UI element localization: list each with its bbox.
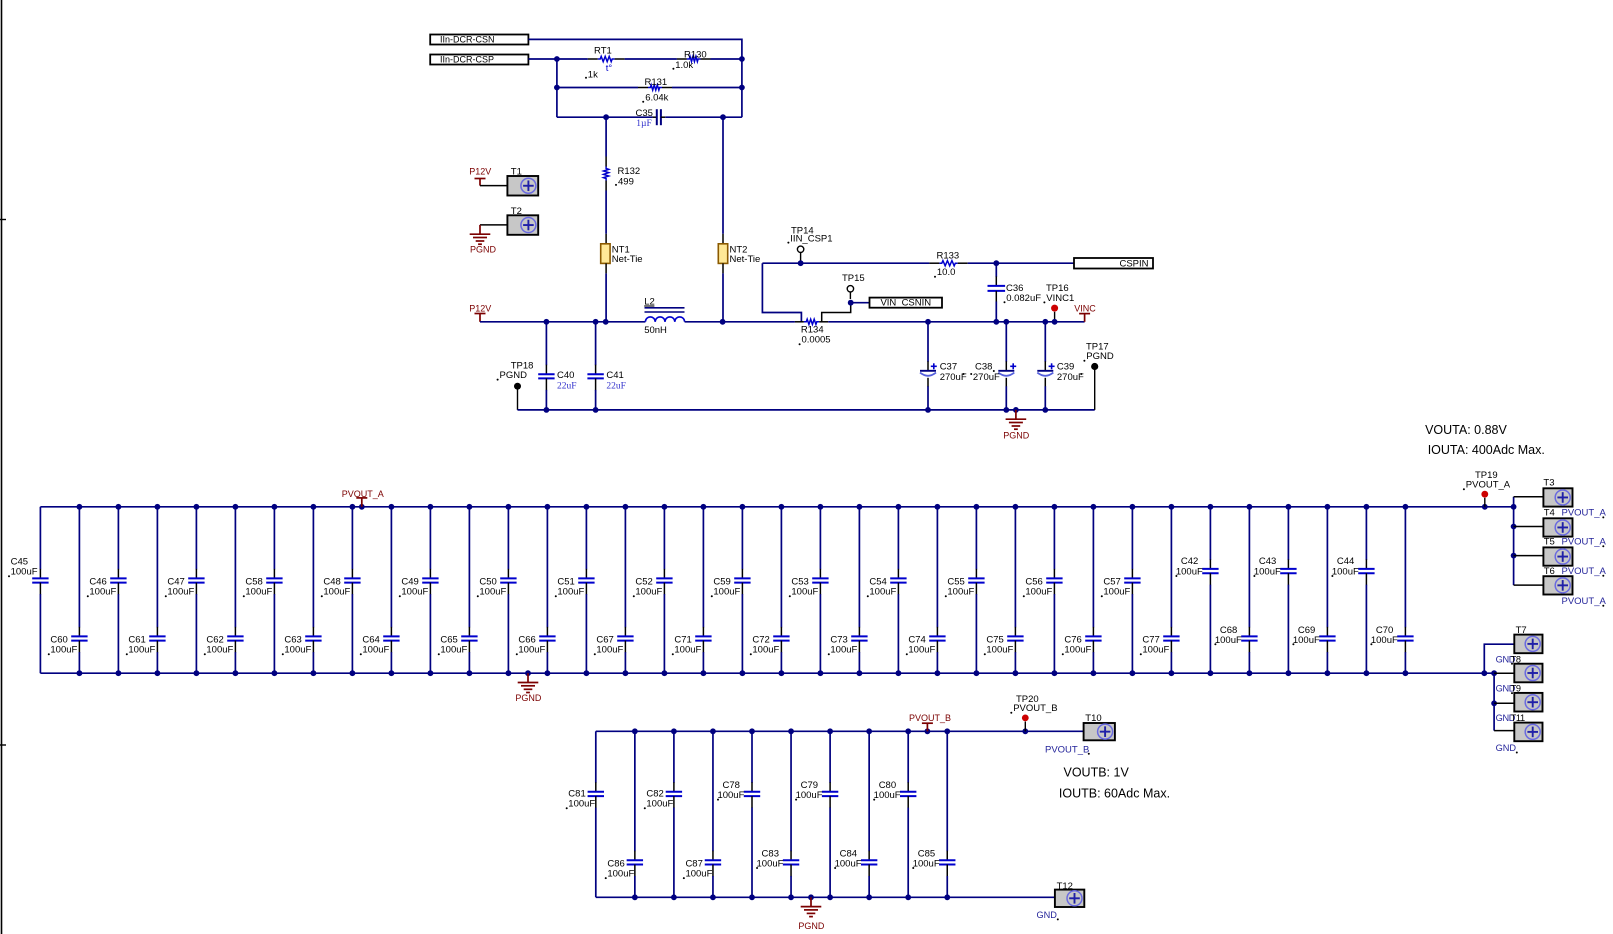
svg-text:IOUTB: 60Adc Max.: IOUTB: 60Adc Max. bbox=[1059, 786, 1170, 800]
svg-text:C40: C40 bbox=[557, 370, 574, 381]
svg-text:IIn-DCR-CSP: IIn-DCR-CSP bbox=[440, 54, 494, 64]
svg-text:100uF: 100uF bbox=[1103, 586, 1130, 597]
svg-text:100uF: 100uF bbox=[1064, 644, 1091, 655]
svg-text:PGND: PGND bbox=[500, 370, 528, 381]
svg-text:100uF: 100uF bbox=[440, 644, 467, 655]
svg-text:6.04k: 6.04k bbox=[645, 92, 668, 103]
svg-text:VINC1: VINC1 bbox=[1046, 293, 1074, 304]
svg-text:100uF: 100uF bbox=[284, 644, 311, 655]
svg-text:VOUTB: 1V: VOUTB: 1V bbox=[1064, 765, 1130, 779]
svg-text:C35: C35 bbox=[636, 108, 653, 119]
svg-text:100uF: 100uF bbox=[607, 868, 634, 879]
svg-text:100uF: 100uF bbox=[206, 644, 233, 655]
svg-text:VIN_CSNIN: VIN_CSNIN bbox=[880, 298, 931, 309]
svg-text:R132: R132 bbox=[618, 166, 641, 177]
svg-text:100uF: 100uF bbox=[752, 644, 779, 655]
svg-text:100uF: 100uF bbox=[913, 859, 940, 870]
svg-text:PGND: PGND bbox=[515, 693, 542, 703]
svg-text:T9: T9 bbox=[1511, 684, 1521, 694]
svg-text:100uF: 100uF bbox=[947, 586, 974, 597]
svg-text:100uF: 100uF bbox=[713, 586, 740, 597]
svg-text:IOUTA: 400Adc Max.: IOUTA: 400Adc Max. bbox=[1428, 443, 1545, 457]
svg-text:T6: T6 bbox=[1544, 566, 1555, 577]
svg-text:C39: C39 bbox=[1057, 362, 1074, 373]
svg-text:100uF: 100uF bbox=[646, 798, 673, 809]
svg-text:100uF: 100uF bbox=[835, 859, 862, 870]
svg-text:TP15: TP15 bbox=[842, 273, 865, 284]
svg-text:100uF: 100uF bbox=[1293, 635, 1320, 646]
svg-text:100uF: 100uF bbox=[479, 586, 506, 597]
svg-text:100uF: 100uF bbox=[1254, 567, 1281, 578]
svg-text:PGND: PGND bbox=[798, 921, 825, 931]
svg-text:1.0k: 1.0k bbox=[675, 60, 693, 71]
svg-text:100uF: 100uF bbox=[596, 644, 623, 655]
svg-text:T12: T12 bbox=[1057, 881, 1073, 892]
svg-text:T7: T7 bbox=[1516, 625, 1527, 636]
svg-text:100uF: 100uF bbox=[717, 790, 744, 801]
svg-text:R131: R131 bbox=[645, 77, 668, 88]
svg-text:100uF: 100uF bbox=[362, 644, 389, 655]
svg-text:PGND: PGND bbox=[1086, 351, 1114, 362]
svg-text:PVOUT_A: PVOUT_A bbox=[1562, 536, 1607, 547]
svg-text:RT1: RT1 bbox=[594, 46, 612, 57]
svg-text:0.082uF: 0.082uF bbox=[1006, 293, 1041, 304]
svg-text:100uF: 100uF bbox=[11, 566, 38, 577]
svg-text:100uF: 100uF bbox=[1371, 635, 1398, 646]
svg-text:T11: T11 bbox=[1511, 713, 1525, 723]
svg-text:1k: 1k bbox=[588, 70, 598, 81]
svg-text:T10: T10 bbox=[1085, 713, 1101, 724]
svg-text:PGND: PGND bbox=[470, 245, 497, 255]
svg-text:100uF: 100uF bbox=[167, 586, 194, 597]
svg-text:T4: T4 bbox=[1544, 508, 1555, 519]
svg-text:100uF: 100uF bbox=[908, 644, 935, 655]
svg-text:C37: C37 bbox=[940, 362, 957, 373]
svg-text:100uF: 100uF bbox=[830, 644, 857, 655]
svg-text:T5: T5 bbox=[1544, 536, 1555, 547]
svg-text:100uF: 100uF bbox=[401, 586, 428, 597]
svg-text:100uF: 100uF bbox=[1142, 644, 1169, 655]
svg-text:P12V: P12V bbox=[469, 303, 491, 313]
svg-text:PVOUT_A: PVOUT_A bbox=[1466, 480, 1511, 491]
svg-text:Net-Tie: Net-Tie bbox=[612, 254, 643, 265]
svg-text:100uF: 100uF bbox=[674, 644, 701, 655]
svg-text:100uF: 100uF bbox=[568, 798, 595, 809]
svg-text:10.0: 10.0 bbox=[937, 267, 956, 278]
svg-text:100uF: 100uF bbox=[986, 644, 1013, 655]
svg-text:499: 499 bbox=[618, 176, 634, 187]
svg-text:R133: R133 bbox=[937, 251, 960, 262]
svg-text:100uF: 100uF bbox=[1025, 586, 1052, 597]
svg-text:P12V: P12V bbox=[469, 167, 491, 177]
svg-text:VOUTA: 0.88V: VOUTA: 0.88V bbox=[1425, 423, 1507, 437]
svg-text:PVOUT_A: PVOUT_A bbox=[1562, 596, 1607, 607]
svg-text:100uF: 100uF bbox=[685, 868, 712, 879]
svg-text:C41: C41 bbox=[606, 370, 623, 381]
svg-text:100uF: 100uF bbox=[89, 586, 116, 597]
svg-text:VINC: VINC bbox=[1074, 303, 1096, 313]
svg-text:Net-Tie: Net-Tie bbox=[730, 254, 761, 265]
svg-text:100uF: 100uF bbox=[1176, 567, 1203, 578]
svg-text:22uF: 22uF bbox=[557, 381, 577, 391]
svg-text:1µF: 1µF bbox=[636, 119, 652, 129]
svg-text:270uF: 270uF bbox=[973, 372, 1000, 383]
svg-text:t°: t° bbox=[606, 63, 613, 74]
svg-text:C42: C42 bbox=[1181, 556, 1198, 567]
svg-text:100uF: 100uF bbox=[50, 644, 77, 655]
svg-text:100uF: 100uF bbox=[518, 644, 545, 655]
svg-text:R130: R130 bbox=[684, 50, 707, 61]
svg-text:100uF: 100uF bbox=[245, 586, 272, 597]
svg-text:T1: T1 bbox=[511, 166, 522, 177]
svg-text:C44: C44 bbox=[1337, 556, 1354, 567]
svg-text:50nH: 50nH bbox=[644, 325, 667, 336]
svg-text:22uF: 22uF bbox=[606, 381, 626, 391]
svg-text:PVOUT_A: PVOUT_A bbox=[1562, 566, 1607, 577]
svg-text:100uF: 100uF bbox=[1215, 635, 1242, 646]
svg-text:IIn-DCR-CSN: IIn-DCR-CSN bbox=[440, 34, 495, 44]
svg-text:100uF: 100uF bbox=[874, 790, 901, 801]
svg-text:GND: GND bbox=[1496, 743, 1517, 753]
svg-text:PVOUT_B: PVOUT_B bbox=[1045, 744, 1089, 755]
svg-text:IIN_CSP1: IIN_CSP1 bbox=[790, 234, 832, 245]
svg-text:100uF: 100uF bbox=[791, 586, 818, 597]
svg-text:100uF: 100uF bbox=[635, 586, 662, 597]
svg-text:T8: T8 bbox=[1511, 654, 1521, 664]
svg-text:PVOUT_B: PVOUT_B bbox=[909, 713, 951, 723]
svg-text:PGND: PGND bbox=[1003, 430, 1030, 440]
svg-text:0.0005: 0.0005 bbox=[802, 335, 831, 346]
svg-text:GND: GND bbox=[1037, 910, 1058, 920]
svg-text:100uF: 100uF bbox=[796, 790, 823, 801]
svg-text:T3: T3 bbox=[1543, 478, 1554, 489]
svg-text:100uF: 100uF bbox=[323, 586, 350, 597]
svg-text:270uF: 270uF bbox=[1057, 372, 1084, 383]
svg-text:100uF: 100uF bbox=[1332, 567, 1359, 578]
svg-text:100uF: 100uF bbox=[128, 644, 155, 655]
svg-text:PVOUT_A: PVOUT_A bbox=[1562, 508, 1607, 519]
svg-text:PVOUT_B: PVOUT_B bbox=[1013, 703, 1057, 714]
svg-text:C38: C38 bbox=[975, 362, 992, 373]
svg-text:100uF: 100uF bbox=[869, 586, 896, 597]
svg-text:100uF: 100uF bbox=[757, 859, 784, 870]
svg-text:C43: C43 bbox=[1259, 556, 1276, 567]
svg-text:100uF: 100uF bbox=[557, 586, 584, 597]
svg-text:CSPIN: CSPIN bbox=[1119, 259, 1148, 270]
